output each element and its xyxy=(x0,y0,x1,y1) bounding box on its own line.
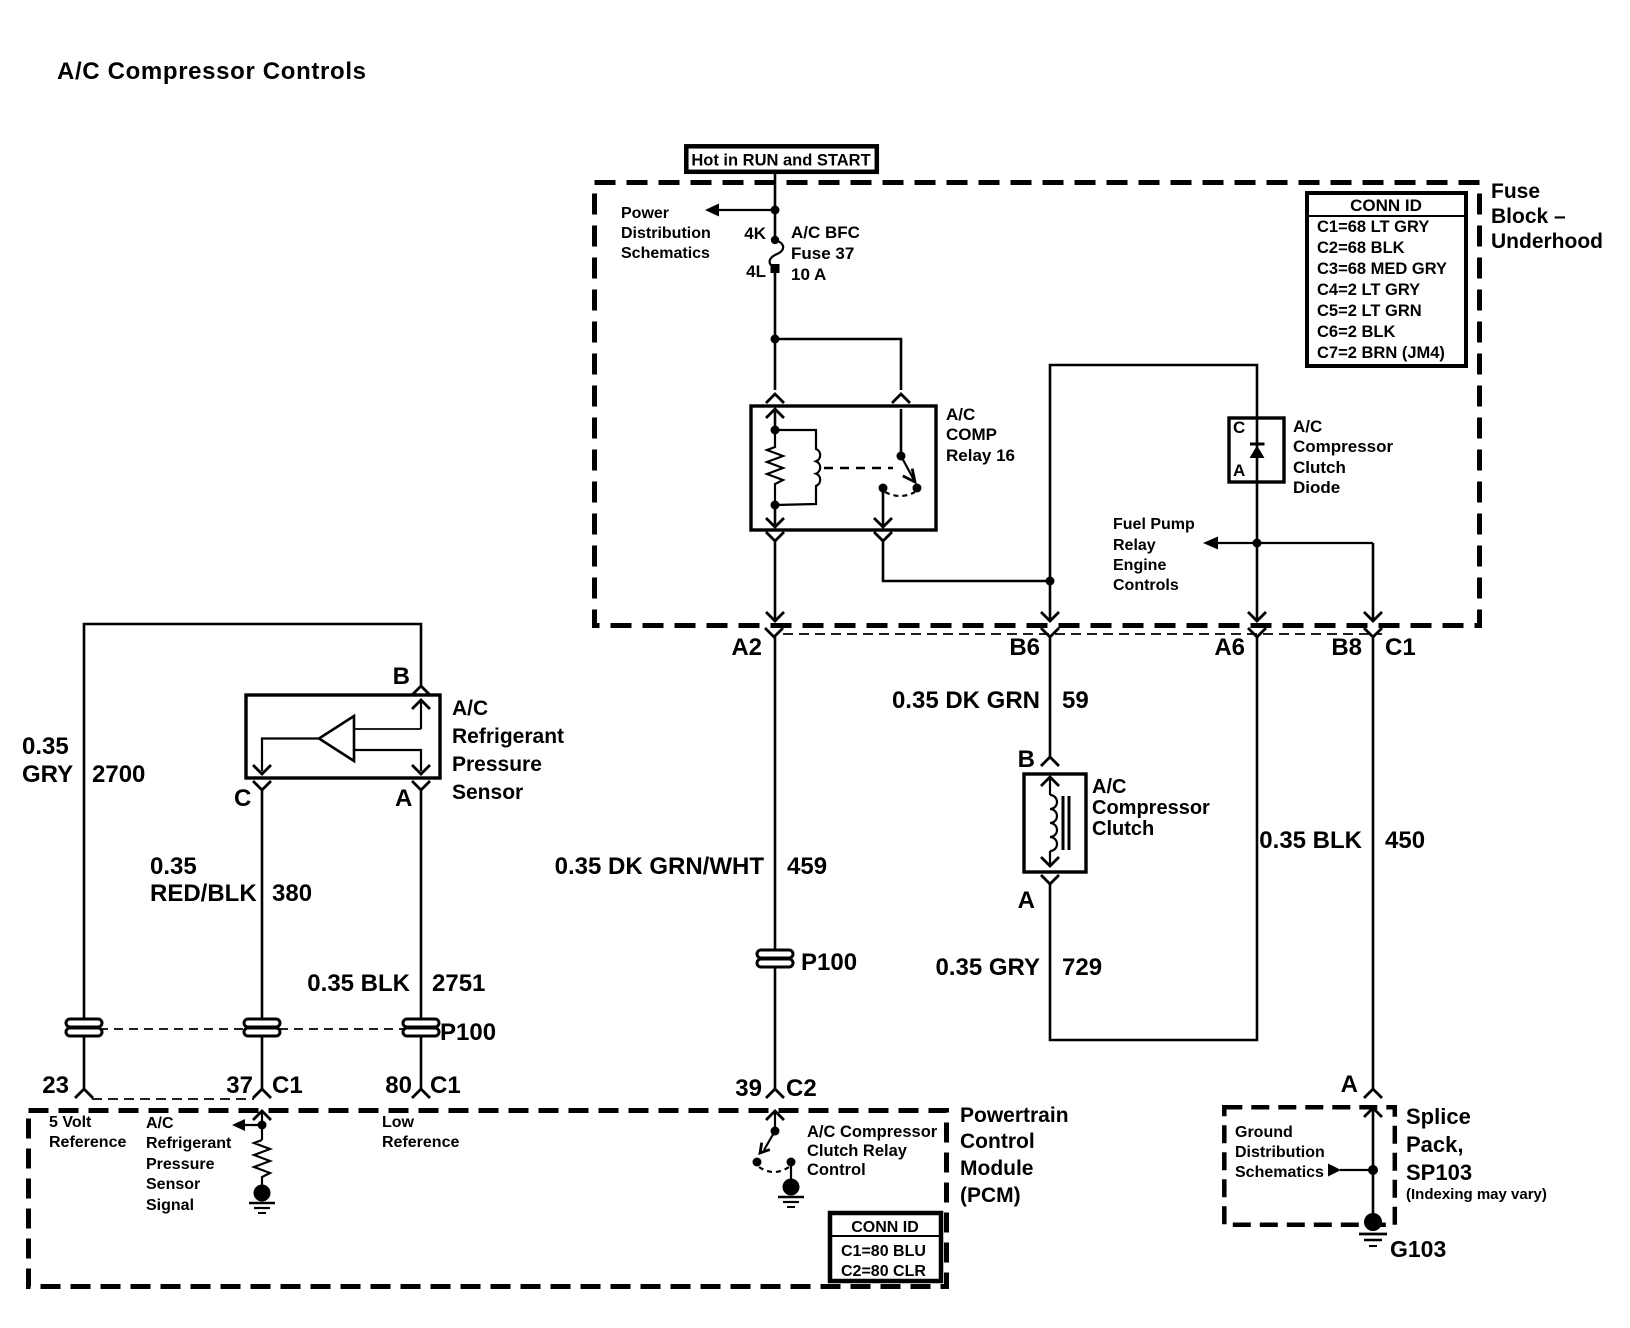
svg-text:Pressure: Pressure xyxy=(146,1156,215,1173)
svg-text:459: 459 xyxy=(787,853,827,880)
svg-text:B: B xyxy=(393,663,410,690)
wire sensor C to P100 (signal) xyxy=(261,790,264,1019)
svg-text:Signal: Signal xyxy=(146,1197,194,1214)
svg-text:729: 729 xyxy=(1062,954,1102,981)
relay coil-side pin arrow (up) xyxy=(767,409,783,417)
svg-text:0.35 BLK: 0.35 BLK xyxy=(307,970,410,997)
sensor internal line to amp xyxy=(354,728,421,730)
svg-text:G103: G103 xyxy=(1390,1236,1446,1262)
wire clutch A to A6 (return) xyxy=(1050,637,1257,1040)
svg-text:C5=2 LT GRN: C5=2 LT GRN xyxy=(1317,302,1422,320)
svg-text:0.35: 0.35 xyxy=(22,733,69,760)
svg-text:4L: 4L xyxy=(746,262,766,281)
svg-text:0.35 GRY: 0.35 GRY xyxy=(936,954,1041,981)
relay switch contact left xyxy=(879,484,888,493)
svg-text:Clutch: Clutch xyxy=(1092,818,1154,840)
wire P100 to pin 80 xyxy=(420,1036,423,1089)
svg-text:(Indexing may vary): (Indexing may vary) xyxy=(1406,1186,1547,1203)
svg-text:Hot in RUN and START: Hot in RUN and START xyxy=(691,152,870,170)
svg-text:RED/BLK: RED/BLK xyxy=(150,880,257,907)
wire sensor A to P100 (low ref) xyxy=(420,790,423,1019)
relay pin top-right connector xyxy=(893,394,909,402)
svg-text:0.35 DK GRN: 0.35 DK GRN xyxy=(892,687,1040,714)
relay pin top-left connector xyxy=(767,394,783,402)
svg-text:Power: Power xyxy=(621,205,669,222)
svg-text:Sensor: Sensor xyxy=(452,781,523,804)
node junction to power distribution arrow xyxy=(771,206,780,215)
svg-text:Engine: Engine xyxy=(1113,557,1166,574)
svg-text:A: A xyxy=(1341,1071,1358,1098)
ground ball (clutch relay control) xyxy=(783,1179,800,1196)
svg-text:80: 80 xyxy=(385,1072,412,1099)
arrow to power distribution (left) xyxy=(705,204,719,217)
pin 80 C1 connector xyxy=(413,1089,429,1097)
clutch coil arrow out (down) xyxy=(1049,851,1051,866)
relay coil bottom pin arrow (down) xyxy=(774,505,777,527)
pin 37 C1 connector xyxy=(254,1089,270,1097)
node splice junction xyxy=(1368,1165,1378,1175)
svg-text:0.35: 0.35 xyxy=(150,853,197,880)
pin 39 C2 connector xyxy=(767,1089,783,1097)
pin 23 connector xyxy=(76,1089,92,1097)
svg-text:Splice: Splice xyxy=(1406,1104,1471,1129)
svg-text:A/C: A/C xyxy=(146,1115,174,1132)
svg-text:A: A xyxy=(1018,887,1035,914)
node relay coil bottom xyxy=(771,501,780,510)
node B6 junction xyxy=(1046,577,1055,586)
svg-text:Clutch: Clutch xyxy=(1293,458,1346,477)
sensor C pin connector below xyxy=(254,782,270,790)
svg-text:Reference: Reference xyxy=(382,1134,459,1151)
node pin39 switch pivot xyxy=(771,1127,780,1136)
wire P100 to pin 37 xyxy=(261,1036,264,1089)
node pin37 xyxy=(258,1121,267,1130)
svg-text:Module: Module xyxy=(960,1157,1034,1180)
svg-text:COMP: COMP xyxy=(946,425,997,444)
svg-text:A2: A2 xyxy=(731,634,762,661)
svg-text:5 Volt: 5 Volt xyxy=(49,1114,92,1131)
relay pin bottom-right connector xyxy=(875,533,891,541)
op-amp triangle xyxy=(319,716,354,761)
svg-text:Sensor: Sensor xyxy=(146,1176,200,1193)
dashed actuation link xyxy=(824,467,893,469)
sensor B A/C refrigerant pressure sensor box xyxy=(246,695,440,778)
svg-text:Reference: Reference xyxy=(49,1134,126,1151)
switch contact right to ground xyxy=(787,1158,796,1167)
svg-text:Fuse 37: Fuse 37 xyxy=(791,244,854,263)
svg-text:C1: C1 xyxy=(1385,634,1416,661)
svg-text:A: A xyxy=(1233,461,1245,480)
svg-text:450: 450 xyxy=(1385,827,1425,854)
svg-text:0.35 BLK: 0.35 BLK xyxy=(1259,827,1362,854)
sensor B pin connector xyxy=(413,686,429,694)
svg-text:C4=2 LT GRY: C4=2 LT GRY xyxy=(1317,281,1420,299)
svg-text:59: 59 xyxy=(1062,687,1089,714)
connector A2 xyxy=(766,629,782,637)
svg-text:10 A: 10 A xyxy=(791,265,826,284)
svg-text:Low: Low xyxy=(382,1114,415,1131)
pin 39 internal arrow (up) xyxy=(767,1111,783,1119)
clutch coil A/C Compressor Clutch box xyxy=(1024,774,1086,872)
svg-text:Pressure: Pressure xyxy=(452,753,542,776)
wire B6 to clutch B xyxy=(1049,637,1052,757)
svg-text:Fuse: Fuse xyxy=(1491,180,1540,203)
arrow from ground distribution (right) xyxy=(1328,1164,1341,1177)
switch contact left xyxy=(753,1158,762,1167)
node relay coil top xyxy=(771,426,780,435)
CONN ID table (PCM) xyxy=(830,1213,941,1281)
connector P100 (5V ref) xyxy=(66,1019,102,1036)
svg-text:C2: C2 xyxy=(786,1075,817,1102)
arrow to fuel pump relay (left) xyxy=(1203,537,1218,550)
svg-text:A/C: A/C xyxy=(452,697,488,720)
svg-text:CONN ID: CONN ID xyxy=(851,1219,919,1236)
svg-text:C1=68 LT GRY: C1=68 LT GRY xyxy=(1317,218,1429,236)
wire relay to A2 xyxy=(774,541,777,621)
svg-text:23: 23 xyxy=(42,1072,69,1099)
wire P100 to pin 39 xyxy=(774,967,777,1089)
connector P100 (signal) xyxy=(244,1019,280,1036)
node diode/fuel-pump junction xyxy=(1253,539,1262,548)
svg-text:39: 39 xyxy=(735,1075,762,1102)
wire 5V reference loop (pin 23 up, across, down to sensor B) xyxy=(84,624,421,1019)
svg-text:Diode: Diode xyxy=(1293,478,1340,497)
svg-text:C7=2 BRN (JM4): C7=2 BRN (JM4) xyxy=(1317,344,1445,362)
svg-text:Pack,: Pack, xyxy=(1406,1132,1464,1157)
ground ball (PCM signal) xyxy=(254,1185,271,1202)
connector P100 (low ref) xyxy=(403,1019,496,1046)
wire up and over to diode xyxy=(1050,365,1257,581)
svg-text:GRY: GRY xyxy=(22,761,73,788)
svg-text:Compressor: Compressor xyxy=(1293,437,1394,456)
wire fuse to relay xyxy=(774,271,777,390)
wire relay switch to B6 node xyxy=(883,541,1048,581)
splice pack pin A connector xyxy=(1365,1089,1381,1097)
node branch junction xyxy=(771,335,780,344)
svg-text:Schematics: Schematics xyxy=(1235,1164,1324,1181)
fuse block underhood dashed box xyxy=(595,183,1480,626)
svg-text:Control: Control xyxy=(960,1130,1035,1153)
driver switch arm with arrowhead xyxy=(764,1131,775,1150)
P100 pass-through dashed tie line xyxy=(84,1028,421,1030)
coil (clutch) xyxy=(1050,795,1057,851)
CONN ID table (fuse block) xyxy=(1307,193,1466,366)
svg-text:2700: 2700 xyxy=(92,761,145,788)
svg-text:C1=80 BLU: C1=80 BLU xyxy=(841,1243,926,1260)
dashed throw arc xyxy=(885,492,915,496)
relay switch arm with arrowhead xyxy=(901,456,914,480)
svg-text:A/C: A/C xyxy=(946,405,975,424)
ground symbol xyxy=(249,1202,275,1205)
ground symbol xyxy=(778,1196,804,1199)
svg-text:C6=2 BLK: C6=2 BLK xyxy=(1317,323,1395,341)
svg-text:CONN ID: CONN ID xyxy=(1350,196,1422,215)
sensor C pin arrow (down) xyxy=(254,766,270,774)
svg-text:2751: 2751 xyxy=(432,970,485,997)
relay switch contact right xyxy=(913,484,922,493)
svg-text:SP103: SP103 xyxy=(1406,1160,1472,1185)
svg-text:A/C Compressor Controls: A/C Compressor Controls xyxy=(57,58,367,85)
clutch B pin connector xyxy=(1042,757,1058,765)
svg-text:Relay: Relay xyxy=(1113,537,1156,554)
svg-text:C1: C1 xyxy=(430,1072,461,1099)
svg-text:380: 380 xyxy=(272,880,312,907)
svg-text:Fuel Pump: Fuel Pump xyxy=(1113,516,1195,533)
svg-text:B6: B6 xyxy=(1009,634,1040,661)
sensor A pin arrow (down) xyxy=(413,766,429,774)
wire diode anode to A6 xyxy=(1256,541,1259,621)
wire to B8 xyxy=(1372,543,1375,621)
sensor internal line amp to A pin xyxy=(354,750,421,771)
svg-text:Relay 16: Relay 16 xyxy=(946,446,1015,465)
wire B8 to splice pack xyxy=(1372,637,1375,1089)
svg-text:C: C xyxy=(1233,418,1245,437)
svg-text:B: B xyxy=(1018,746,1035,773)
splice internal arrow (up) xyxy=(1365,1108,1381,1116)
clutch A pin connector xyxy=(1042,876,1058,884)
svg-text:A/C BFC: A/C BFC xyxy=(791,223,860,242)
svg-text:A: A xyxy=(395,785,412,812)
dashed throw arc (PCM switch) xyxy=(759,1167,789,1172)
boundary connector line (thin dashed) xyxy=(783,633,1382,635)
ground ball G103 xyxy=(1364,1213,1382,1231)
svg-text:Control: Control xyxy=(807,1161,866,1179)
resistor (relay) xyxy=(767,430,783,505)
relay switch pivot xyxy=(900,409,903,456)
relay U16 A/C COMP Relay box xyxy=(751,406,936,530)
svg-text:0.35 DK GRN/WHT: 0.35 DK GRN/WHT xyxy=(555,853,765,880)
relay switch output pin arrow (down) xyxy=(882,488,885,527)
svg-text:A/C: A/C xyxy=(1092,776,1126,798)
connector B6 xyxy=(1042,629,1058,637)
svg-text:C2=68 BLK: C2=68 BLK xyxy=(1317,239,1405,257)
svg-text:37: 37 xyxy=(226,1072,253,1099)
wire from Hot box down to fuse xyxy=(774,174,777,240)
splice pack SP103 dashed box xyxy=(1224,1107,1395,1225)
clutch plates xyxy=(1062,796,1065,850)
clutch coil arrow in (up) xyxy=(1042,777,1058,785)
svg-text:Ground: Ground xyxy=(1235,1124,1293,1141)
svg-text:C1: C1 xyxy=(272,1072,303,1099)
svg-text:B8: B8 xyxy=(1331,634,1362,661)
svg-text:A/C Compressor: A/C Compressor xyxy=(807,1123,938,1141)
svg-text:A6: A6 xyxy=(1214,634,1245,661)
svg-text:C2=80 CLR: C2=80 CLR xyxy=(841,1263,926,1280)
svg-text:Refrigerant: Refrigerant xyxy=(452,725,564,748)
wire to power distribution schematics xyxy=(711,209,775,211)
svg-text:4K: 4K xyxy=(744,224,766,243)
svg-text:P100: P100 xyxy=(440,1019,496,1046)
fuse F37 A/C BFC xyxy=(744,223,860,284)
pulldown resistor (PCM) xyxy=(254,1140,270,1185)
svg-text:Compressor: Compressor xyxy=(1092,797,1210,819)
svg-text:Distribution: Distribution xyxy=(621,225,711,242)
connector B8 / C1 xyxy=(1365,629,1381,637)
wire node to B6 boundary arrow xyxy=(1049,581,1052,621)
internal arrow left xyxy=(238,1124,262,1126)
connector P100 (control) xyxy=(757,949,857,976)
diode CR A/C compressor clutch diode box xyxy=(1229,418,1284,482)
sensor internal supply arrow (up) xyxy=(413,700,429,708)
sensor signal line apex to C pin xyxy=(262,739,319,772)
wire branch to relay switch pin xyxy=(775,339,901,390)
wire P100 to pin 23 xyxy=(83,1036,86,1089)
svg-text:Underhood: Underhood xyxy=(1491,230,1603,253)
svg-text:P100: P100 xyxy=(801,949,857,976)
sensor A pin connector below xyxy=(413,782,429,790)
wire fuel pump feed xyxy=(1217,542,1373,544)
svg-text:A/C: A/C xyxy=(1293,417,1322,436)
svg-text:Powertrain: Powertrain xyxy=(960,1104,1069,1127)
PCM pin tie line (thin dashed) xyxy=(92,1098,254,1100)
svg-text:Block –: Block – xyxy=(1491,205,1566,228)
svg-text:Controls: Controls xyxy=(1113,577,1179,594)
PCM dashed box xyxy=(29,1111,947,1287)
ground symbol G103 xyxy=(1359,1233,1387,1236)
Hot in RUN and START box xyxy=(686,146,877,172)
wire A2 to P100 (clutch relay control) xyxy=(774,637,777,950)
svg-text:Clutch Relay: Clutch Relay xyxy=(807,1142,908,1160)
svg-text:Distribution: Distribution xyxy=(1235,1144,1325,1161)
svg-text:C3=68 MED GRY: C3=68 MED GRY xyxy=(1317,260,1447,278)
svg-text:C: C xyxy=(234,785,251,812)
connector A6 xyxy=(1249,629,1265,637)
pin 37 internal arrow (up) xyxy=(254,1111,270,1119)
diode symbol xyxy=(1250,443,1265,446)
svg-text:Schematics: Schematics xyxy=(621,245,710,262)
svg-text:(PCM): (PCM) xyxy=(960,1184,1021,1207)
coil (relay) parallel branch xyxy=(775,430,820,505)
relay pin bottom-left connector xyxy=(767,533,783,541)
svg-text:Refrigerant: Refrigerant xyxy=(146,1135,232,1152)
